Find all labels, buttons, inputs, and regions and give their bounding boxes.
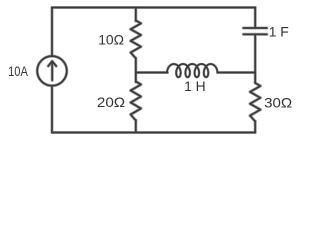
inductor L1 1H coil — [167, 64, 217, 77]
wire right lower stub — [254, 121, 257, 133]
wire top — [52, 6, 255, 9]
svg-text:30Ω: 30Ω — [264, 94, 292, 110]
resistor R1 10 ohm — [131, 21, 141, 59]
wire right middle — [254, 34, 257, 83]
svg-text:20Ω: 20Ω — [97, 94, 125, 110]
wire left lower — [50, 86, 53, 133]
svg-text:10A: 10A — [8, 63, 28, 79]
capacitor C1 1F plates — [243, 28, 267, 34]
wire inductor right lead — [217, 71, 255, 74]
wire middle lower stub — [134, 120, 137, 133]
wire inductor left lead — [136, 71, 168, 74]
wire left upper — [50, 8, 53, 57]
wire right upper stub — [254, 8, 257, 29]
wire bottom — [52, 131, 255, 134]
wire middle upper stub — [134, 8, 137, 22]
wire middle between resistors — [134, 58, 137, 82]
current source I1 arrow — [48, 61, 56, 80]
resistor R2 20 ohm — [131, 82, 141, 121]
resistor R3 30 ohm — [250, 83, 260, 122]
svg-text:1 H: 1 H — [184, 78, 206, 94]
svg-text:1 F: 1 F — [269, 23, 289, 39]
svg-text:10Ω: 10Ω — [98, 32, 124, 48]
current source I1 (10A) circle — [37, 56, 67, 86]
